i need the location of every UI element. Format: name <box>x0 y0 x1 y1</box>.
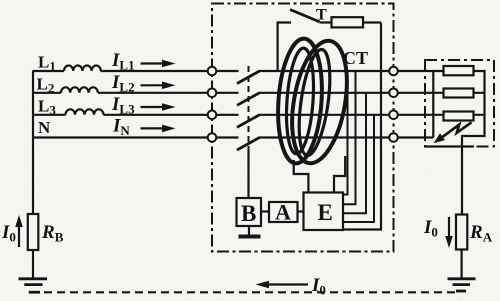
wire L2 to load <box>398 92 444 94</box>
current transformer toroid outer right <box>284 37 356 168</box>
wire left vertical bus to RB <box>32 71 34 214</box>
wire N into load box <box>398 136 433 138</box>
box E (evaluation unit) <box>304 193 344 231</box>
current transformer toroid outer left <box>274 37 326 165</box>
arrow I0 bottom (leftwards) <box>256 281 309 289</box>
switch linkage (dashed) <box>248 66 250 150</box>
node circle left N <box>208 133 217 142</box>
node circle left L1 <box>208 67 217 76</box>
node circle right N <box>389 133 398 142</box>
svg-text:CT: CT <box>343 48 368 68</box>
inductor coil on L3 <box>66 109 104 115</box>
switch blade L1 <box>237 71 260 84</box>
resistor RB <box>28 214 39 250</box>
load enclosure bottom solid segment <box>425 145 474 147</box>
node circle right L3 <box>389 111 398 120</box>
arrow I0 down right <box>445 217 453 248</box>
tap wire v4 from L3 to E <box>343 115 374 222</box>
test wire right vertical to E <box>343 23 381 230</box>
svg-text:A: A <box>275 200 291 225</box>
svg-text:B: B <box>241 201 256 226</box>
box B (trip unit) <box>237 198 262 226</box>
ground left <box>19 279 48 292</box>
wire L1 to load <box>398 70 444 72</box>
switch blade L2 <box>237 93 260 106</box>
tap wire v2 from L1 to E <box>343 71 356 204</box>
wire L2 line <box>33 92 394 94</box>
tap wire v3 from L2 to E <box>343 93 366 214</box>
wire A to E <box>298 210 304 212</box>
node circle right L1 <box>389 67 398 76</box>
arrow IL3 <box>141 103 176 111</box>
wire N line <box>33 136 394 138</box>
wire RA to ground <box>461 250 463 279</box>
test switch blade T <box>290 10 320 22</box>
arrow IL1 <box>141 60 176 68</box>
CT secondary pedestal to E <box>294 156 346 193</box>
test wire to resistor <box>320 21 332 23</box>
wire B to ground bar <box>248 226 250 235</box>
current transformer toroid inner left <box>283 47 316 155</box>
box A (amplifier) <box>269 202 298 222</box>
wire RB to ground <box>32 250 34 278</box>
load resistor R2 <box>444 89 474 98</box>
resistor RA <box>456 215 467 250</box>
wire L1 line <box>33 70 394 72</box>
fault lightning arrow <box>434 122 472 143</box>
svg-text:N: N <box>38 118 51 137</box>
inductor coil on L2 <box>61 87 98 93</box>
load right bus <box>462 71 485 215</box>
wire L3 to load <box>398 114 444 116</box>
tap wire v1 from L1 to E <box>343 71 348 195</box>
ground bar under B <box>239 235 261 239</box>
current transformer toroid inner right <box>294 48 336 158</box>
arrow I0 up left <box>15 215 23 247</box>
load enclosure dashed box <box>425 60 494 147</box>
test circuit left wire <box>278 23 291 72</box>
wire linkage to B <box>247 150 249 198</box>
svg-text:T: T <box>316 7 327 24</box>
wire L3 line <box>33 114 394 116</box>
switch blade N <box>237 138 260 151</box>
load left bus <box>432 71 434 138</box>
load resistor R1 <box>444 66 474 75</box>
load resistor R3 <box>444 112 474 121</box>
switch blade L3 <box>237 115 260 128</box>
wire B to A <box>261 210 269 212</box>
test wire right <box>363 21 381 23</box>
node circle left L3 <box>208 111 217 120</box>
inductor coil on L1 <box>64 66 101 72</box>
node circle right L2 <box>389 89 398 98</box>
arrow IN <box>141 125 176 133</box>
arrow IL2 <box>141 82 176 90</box>
node circle left L2 <box>208 89 217 98</box>
ground right <box>448 279 476 291</box>
dashed enclosure of RCD unit <box>212 4 394 252</box>
bottom dashed earth-return line <box>44 291 455 293</box>
svg-text:E: E <box>318 200 333 225</box>
test resistor <box>332 17 364 27</box>
